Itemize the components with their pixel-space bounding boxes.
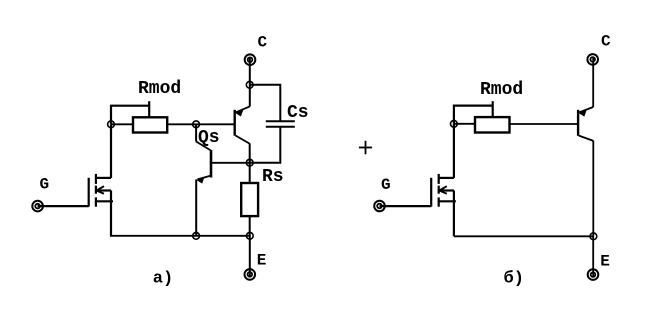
node D junction (left) [246, 159, 253, 166]
wire MOSFET drain up (left) [110, 124, 112, 178]
node junction rail E (left) [246, 232, 253, 239]
capacitor Cs (left) [266, 121, 295, 127]
PNP transistor (right) [578, 107, 593, 141]
wire tap to Rmod top (left) [148, 101, 150, 117]
wire gate G (left) [38, 205, 89, 207]
wire node to Rmod left (right) [454, 123, 475, 125]
node junction drain/Rmod (right) [451, 120, 458, 127]
terminal C (left) [245, 54, 256, 65]
resistor Rmod (right) [475, 117, 510, 132]
wire Cs bottom to node D (left) [250, 127, 281, 163]
resistor Rs (left) [241, 183, 258, 216]
wire E terminal (left) [249, 236, 251, 276]
wire bottom rail (left) [110, 235, 251, 237]
node junction rail E (right) [590, 233, 597, 240]
svg-text:E: E [257, 251, 267, 269]
wire C terminal down (left) [249, 57, 251, 85]
svg-text:E: E [600, 252, 610, 270]
wire Qs base to node D (left) [211, 162, 250, 164]
wire bottom rail (right) [454, 235, 594, 237]
node A junction (left, drain/Rmod) [108, 121, 115, 128]
wire junction C down to PNP emitter (left) [249, 85, 251, 107]
n-channel MOSFET (right) [431, 174, 456, 207]
terminal G (right) [374, 201, 385, 212]
terminal E (right) [588, 269, 599, 280]
wire MOSFET drain up (right) [453, 124, 455, 178]
terminal C (right) [587, 54, 598, 65]
node junction below C (left) [246, 81, 253, 88]
svg-text:б): б) [504, 269, 524, 288]
wire tap to Rmod top (right) [492, 101, 494, 117]
n-channel MOSFET (left) [89, 174, 113, 207]
wire node A to Rmod left (left) [111, 123, 133, 125]
svg-text:Rmod: Rmod [480, 80, 523, 100]
wire E terminal (right) [592, 236, 594, 276]
wire Rmod right to node B (left) [167, 123, 196, 125]
svg-text:a): a) [153, 270, 173, 289]
wire PNP collector down to rail (right) [592, 141, 594, 237]
wire PNP collector down to node D (left) [249, 143, 251, 162]
svg-text:G: G [40, 176, 50, 194]
svg-text:C: C [258, 33, 268, 51]
wire MOSFET source down (right) [453, 191, 455, 237]
terminal G (left) [32, 201, 43, 212]
svg-text:Qs: Qs [198, 128, 220, 148]
wire bypass up from node A (left) [111, 106, 149, 125]
PNP transistor (left, top) [235, 106, 250, 143]
wire Rmod right to PNP base (right) [510, 123, 579, 125]
svg-text:Cs: Cs [287, 103, 309, 123]
wire Qs emitter down (left) [195, 179, 197, 235]
wire Rs bottom to rail (left) [249, 216, 251, 236]
svg-text:C: C [601, 33, 611, 51]
wire gate G (right) [380, 205, 432, 207]
wire bypass up from node (right) [454, 106, 493, 124]
wire Qs collector up to node B (left) [195, 124, 197, 141]
plus sign between circuits [359, 141, 372, 155]
svg-text:G: G [381, 176, 391, 194]
wire node B to PNP base (left) [196, 123, 235, 125]
wire node D down to Rs (left) [249, 163, 251, 183]
resistor Rmod (left) [133, 117, 167, 132]
wire C terminal down to PNP emitter (right) [592, 57, 594, 107]
svg-text:Rmod: Rmod [138, 79, 181, 99]
NPN transistor Qs (left) [196, 142, 211, 184]
node B junction (left) [193, 121, 200, 128]
node junction rail Qs emitter (left) [193, 232, 200, 239]
wire MOSFET source down (left) [110, 191, 112, 236]
terminal E (left) [245, 269, 256, 280]
svg-text:Rs: Rs [262, 167, 284, 187]
wire C node to Cs top (left) [250, 85, 281, 122]
